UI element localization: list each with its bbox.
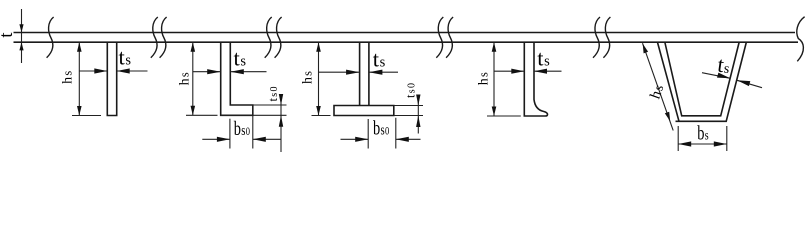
dimension hs2 bottom arrow: [191, 106, 196, 116]
break mark 4b: [603, 17, 610, 58]
dimension tso3 leader line: [417, 97, 419, 134]
svg-text:ts: ts: [119, 45, 132, 70]
dimension ts5 right shaft: [737, 80, 762, 87]
dimension ts4 right arrow: [534, 69, 547, 74]
break mark left: [47, 17, 54, 58]
svg-text:hs: hs: [60, 71, 75, 84]
dimension tso2 up arrow: [279, 94, 283, 105]
dimension bso3 right shaft: [396, 138, 421, 140]
break mark 2a: [265, 17, 272, 58]
dimension tso3 up arrow: [416, 95, 420, 106]
dimension tso2 down arrow: [279, 115, 283, 127]
label ts4: [537, 46, 550, 71]
svg-text:ts: ts: [373, 46, 386, 71]
svg-text:bs: bs: [697, 122, 709, 144]
dimension bso2 right arrow: [253, 137, 266, 142]
dimension bso2 left extension line: [229, 119, 231, 149]
dimension hs3 top arrow: [316, 42, 321, 52]
dimension ts1 left arrow: [94, 68, 107, 73]
deck plate top line: [14, 32, 796, 34]
dimension tso3 top extension line: [394, 105, 423, 107]
dimension bso3 left extension line: [367, 119, 369, 149]
label bso2: [234, 118, 250, 140]
deck plate bottom line: [14, 41, 799, 43]
svg-text:hs: hs: [476, 72, 491, 85]
svg-text:hs: hs: [177, 72, 192, 85]
svg-text:hs: hs: [648, 83, 668, 102]
dimension ts4 left arrow: [511, 69, 524, 74]
dimension ts5 left shaft: [702, 73, 730, 79]
label bso3: [373, 118, 389, 140]
dimension hs3 bottom extension line: [312, 115, 331, 117]
label ts5: [716, 52, 732, 78]
stiffener 5 trapezoidal rib inner wall: [665, 42, 739, 116]
dimension hs5 bottom arrow: [665, 112, 670, 122]
stiffener 5 trapezoidal rib outer wall: [657, 42, 746, 121]
label tso2: [266, 87, 280, 102]
dimension hs3 bottom arrow: [316, 106, 321, 116]
dimension tso3 bottom extension line: [394, 115, 423, 117]
dimension bso3 left arrow: [355, 137, 368, 142]
label ts3: [373, 46, 386, 71]
dimension ts5 right arrow: [737, 80, 750, 86]
svg-text:t: t: [0, 32, 17, 38]
dimension bso2 right shaft: [253, 138, 281, 140]
dimension bso2 left arrow: [217, 137, 230, 142]
dimension ts2 right shaft: [230, 71, 266, 73]
dimension ts3 right arrow: [369, 70, 383, 75]
dimension bso3 right arrow: [396, 137, 409, 142]
dimension t top arrow: [19, 24, 23, 32]
svg-text:ts0: ts0: [266, 87, 280, 102]
break mark 4a: [593, 17, 600, 58]
dimension bs5 left extension line: [677, 126, 679, 151]
label hs4: [476, 72, 491, 85]
dimension ts4 right shaft: [534, 70, 562, 72]
svg-text:ts: ts: [537, 46, 550, 71]
dimension t bottom arrow: [19, 42, 23, 50]
dimension tso2 leader line: [280, 96, 282, 152]
svg-text:ts0: ts0: [404, 83, 418, 98]
dimension bs5 line: [678, 143, 727, 145]
dimension ts2 left shaft: [193, 71, 221, 73]
break mark 2b: [275, 17, 282, 58]
dimension tso3 down arrow: [416, 116, 420, 128]
dimension hs1 bottom arrow: [77, 106, 82, 116]
dimension t leader line: [21, 9, 23, 63]
dimension hs1 top arrow: [77, 42, 82, 52]
stiffener 2 angle web and flange: [221, 42, 253, 115]
dimension bs5 right extension line: [726, 126, 728, 151]
dimension ts3 left arrow: [346, 70, 360, 75]
svg-text:ts: ts: [716, 52, 732, 78]
dimension bso2 left shaft: [202, 138, 230, 140]
dimension ts4 left shaft: [494, 70, 524, 72]
dimension ts3 right shaft: [369, 71, 398, 73]
dimension bs5 left arrow: [678, 141, 691, 146]
dimension ts2 left arrow: [207, 69, 221, 74]
dimension ts2 right arrow: [230, 69, 244, 74]
break mark 3b: [446, 17, 453, 58]
break mark 1a: [151, 17, 158, 58]
dimension hs5 slanted line: [643, 43, 674, 130]
dimension bso3 left shaft: [341, 138, 369, 140]
label hs2: [177, 72, 192, 85]
stiffener 4 bulb flat: [524, 42, 547, 116]
label ts1: [119, 45, 132, 70]
dimension hs1 bottom extension line: [72, 115, 101, 117]
label ts2: [234, 46, 247, 71]
svg-text:bs0: bs0: [373, 118, 389, 140]
svg-text:bs0: bs0: [234, 118, 250, 140]
stiffener 1 flat bar web: [107, 42, 116, 115]
dimension hs3 line: [318, 42, 320, 115]
dimension bso3 right extension line: [395, 118, 397, 149]
dimension bso2 right extension line: [252, 105, 254, 149]
dimension hs4 bottom arrow: [492, 107, 497, 117]
stiffener 3 tee flange: [334, 106, 394, 116]
label hs3: [301, 71, 316, 84]
break mark 1b: [160, 17, 167, 58]
stiffener 3 tee web: [360, 42, 369, 105]
dimension hs4 bottom extension line: [487, 115, 521, 117]
label hs1: [60, 71, 75, 84]
label t: [0, 32, 17, 38]
label tso3: [404, 83, 418, 98]
label hs5: [648, 83, 668, 102]
dimension bs5 right arrow: [714, 141, 727, 146]
dimension hs2 top arrow: [191, 42, 196, 52]
dimension tso2 bottom extension line: [221, 114, 287, 116]
break mark right end: [797, 17, 805, 62]
dimension ts1 left shaft: [79, 70, 107, 72]
dimension hs4 line: [493, 42, 495, 116]
svg-text:ts: ts: [234, 46, 247, 71]
label bs5: [697, 122, 709, 144]
dimension tso2 top extension line: [253, 104, 287, 106]
dimension ts1 right arrow: [117, 68, 130, 73]
dimension hs5 top arrow: [643, 44, 648, 54]
dimension hs1 line: [78, 42, 80, 115]
dimension hs4 top arrow: [492, 42, 497, 52]
svg-text:hs: hs: [301, 71, 316, 84]
dimension hs2 line: [192, 42, 194, 115]
dimension ts5 left arrow: [717, 73, 730, 79]
dimension ts3 left shaft: [319, 71, 360, 73]
dimension hs2 bottom extension line: [186, 114, 218, 116]
break mark 3a: [436, 17, 443, 58]
dimension ts1 right shaft: [117, 70, 148, 72]
